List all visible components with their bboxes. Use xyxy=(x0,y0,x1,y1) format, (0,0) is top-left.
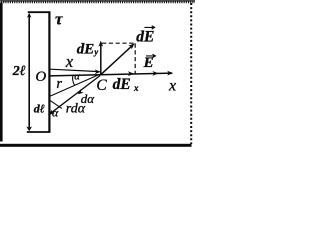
border: right dotted edge xyxy=(190,3,192,144)
small arrowhead on r line xyxy=(78,89,84,94)
x axis xyxy=(50,73,173,76)
rod bottom extension cap xyxy=(27,131,51,133)
dashed projection vertical xyxy=(134,44,136,74)
dE vector diagonal from C xyxy=(100,45,133,75)
svg-text:x: x xyxy=(65,52,74,71)
border: bottom solid bar xyxy=(0,144,192,147)
arrowhead at element end of r line xyxy=(49,110,55,115)
svg-text:C: C xyxy=(96,77,107,94)
r line from element dl to C xyxy=(49,76,100,115)
svg-text:E: E xyxy=(143,55,154,71)
svg-text:y: y xyxy=(93,46,98,56)
svg-text:x: x xyxy=(168,77,176,94)
svg-text:rdα: rdα xyxy=(66,101,86,116)
dimension line 2l with arrows xyxy=(28,14,30,130)
svg-text:τ: τ xyxy=(55,10,63,29)
border: top perforated zigzag edge xyxy=(0,0,195,2)
border: left solid bar xyxy=(0,3,3,142)
svg-text:dE: dE xyxy=(136,28,154,45)
svg-text:O: O xyxy=(35,69,46,85)
x dimension line from O to C xyxy=(51,69,100,71)
svg-text:2ℓ: 2ℓ xyxy=(12,64,26,79)
rod (charged filament) xyxy=(48,12,50,132)
svg-text:α: α xyxy=(74,72,80,83)
second wedge ray from element top to C xyxy=(51,75,98,96)
rod top extension cap xyxy=(28,11,51,13)
x axis arrowhead xyxy=(167,71,173,76)
svg-text:dE: dE xyxy=(77,41,95,57)
dashed projection horizontal xyxy=(102,42,135,44)
E vector arrowhead on axis xyxy=(152,71,158,76)
svg-text:r: r xyxy=(56,76,62,92)
svg-text:dE: dE xyxy=(113,76,131,93)
dEy component arrow at C xyxy=(100,43,102,75)
svg-text:x: x xyxy=(133,83,139,93)
dEx arrowhead on axis xyxy=(128,71,134,76)
svg-text:dℓ: dℓ xyxy=(34,102,45,116)
rd-alpha arc at element xyxy=(50,101,62,109)
angle alpha arc at C xyxy=(73,76,75,85)
svg-text:α: α xyxy=(52,106,59,120)
